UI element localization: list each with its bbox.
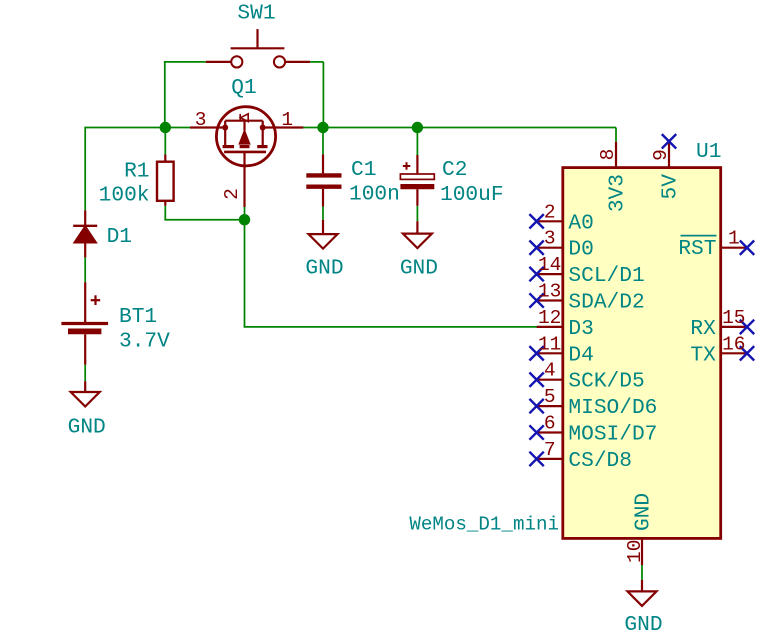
junction: rail / SW1 / R1 node: [160, 122, 171, 133]
svg-text:6: 6: [544, 413, 556, 435]
pin 12 D3 (U1 left): [537, 326, 563, 328]
svg-text:3: 3: [195, 109, 207, 131]
pin 13 SDA/D2 (U1 left): [529, 293, 562, 307]
svg-text:MOSI/D7: MOSI/D7: [568, 423, 657, 447]
svg-text:13: 13: [538, 281, 561, 303]
wire: rail to U1 pin 8 3V3: [615, 128, 617, 142]
svg-text:RX: RX: [690, 317, 716, 341]
ground symbol at BT1: [71, 381, 100, 406]
ground symbol at C2: [403, 221, 432, 248]
wire: R1 bottom down: [164, 206, 166, 220]
wire: D1 anode to BT1 plus: [84, 257, 86, 282]
svg-text:GND: GND: [305, 257, 343, 281]
svg-text:D3: D3: [568, 317, 593, 341]
svg-text:GND: GND: [632, 493, 656, 531]
pin 11 D4 (U1 left): [529, 346, 562, 360]
ground symbol at C1: [309, 220, 338, 249]
svg-text:TX: TX: [690, 344, 716, 368]
wire: riser to SW1 left: [164, 62, 166, 128]
resistor R1: [157, 154, 174, 205]
wire: BT1 minus to ground: [84, 365, 86, 382]
wire: to U1 pin 12 D3: [244, 326, 537, 328]
svg-text:D0: D0: [568, 238, 593, 262]
svg-text:3V3: 3V3: [606, 174, 630, 212]
svg-text:16: 16: [722, 333, 745, 355]
wire: rail to C1 top: [322, 128, 324, 155]
svg-text:10: 10: [624, 540, 646, 563]
svg-text:A0: A0: [568, 211, 593, 235]
svg-text:8: 8: [597, 149, 619, 161]
svg-text:4: 4: [544, 360, 556, 382]
svg-text:D1: D1: [107, 225, 132, 249]
svg-text:2: 2: [544, 201, 556, 223]
pin 6 MOSI/D7 (U1 left): [529, 425, 562, 439]
diode D1: [73, 210, 97, 257]
svg-text:100uF: 100uF: [440, 183, 504, 207]
svg-text:14: 14: [538, 254, 561, 276]
pin 2 A0 (U1 left): [529, 214, 562, 228]
svg-text:11: 11: [538, 333, 561, 355]
svg-text:CS/D8: CS/D8: [568, 449, 632, 473]
pin 9 5V (U1 top): [662, 134, 676, 168]
capacitor C2 polarized: [400, 155, 434, 206]
pin 15 RX (U1 right): [721, 320, 755, 334]
svg-text:C1: C1: [351, 158, 376, 182]
wire: C2 bottom to ground: [416, 206, 418, 221]
pin 8 3V3 (U1 top): [615, 142, 617, 168]
svg-text:RST: RST: [678, 237, 716, 261]
svg-text:MISO/D6: MISO/D6: [568, 396, 657, 420]
wire: C1 bottom to ground: [322, 207, 324, 220]
svg-text:SCK/D5: SCK/D5: [568, 370, 644, 394]
svg-text:D4: D4: [568, 343, 593, 367]
junction: rail / C2 node: [412, 122, 423, 133]
svg-text:Q1: Q1: [231, 76, 256, 100]
svg-text:GND: GND: [68, 416, 106, 440]
pin 16 TX (U1 right): [721, 346, 755, 360]
svg-text:3: 3: [544, 228, 556, 250]
wire: Q1 pin 2 to gate node: [244, 207, 246, 220]
junction: rail / SW1 right / C1 node: [317, 122, 328, 133]
svg-text:5: 5: [544, 386, 556, 408]
svg-text:GND: GND: [400, 257, 438, 281]
battery BT1: [61, 282, 108, 364]
capacitor C1: [306, 154, 341, 206]
svg-text:SDA/D2: SDA/D2: [568, 291, 644, 315]
pin 14 SCL/D1 (U1 left): [529, 267, 562, 281]
wire: to SW1 pin 1: [164, 61, 206, 63]
switch SW1 push button: [206, 29, 310, 67]
svg-text:100k: 100k: [99, 184, 150, 208]
wire: main 3V3 rail: [85, 127, 616, 129]
svg-text:3.7V: 3.7V: [119, 330, 170, 354]
svg-text:C2: C2: [442, 158, 467, 182]
svg-text:12: 12: [538, 307, 561, 329]
op-amp U1 WeMos D1 mini module body: [563, 168, 721, 539]
svg-text:9: 9: [650, 149, 672, 161]
pin 3 D0 (U1 left): [529, 241, 562, 255]
junction: R1 / Q1 gate / D3 node: [239, 214, 250, 225]
wire: SW1 pin 2 out: [310, 61, 323, 63]
ground symbol at U1 pin 10: [628, 580, 657, 606]
wire: rail down to D1 cathode: [84, 127, 86, 211]
pin 5 MISO/D6 (U1 left): [529, 399, 562, 413]
svg-text:100n: 100n: [349, 183, 400, 207]
wire: R1 bottom to Q1 gate node: [164, 219, 244, 221]
svg-text:15: 15: [722, 307, 745, 329]
svg-text:R1: R1: [124, 160, 149, 184]
svg-text:7: 7: [544, 439, 556, 461]
svg-text:SW1: SW1: [237, 2, 275, 26]
svg-text:2: 2: [221, 188, 243, 200]
svg-text:5V: 5V: [659, 174, 683, 200]
svg-text:U1: U1: [696, 140, 721, 164]
pin 4 SCK/D5 (U1 left): [529, 373, 562, 387]
wire: rail to C2 top: [416, 128, 418, 156]
svg-text:GND: GND: [624, 613, 662, 636]
pin 7 CS/D8 (U1 left): [529, 452, 562, 466]
svg-text:1: 1: [728, 228, 740, 250]
svg-text:1: 1: [281, 109, 293, 131]
wire: U1 pin 10 to ground: [641, 565, 643, 580]
wire: gate node down: [244, 220, 246, 327]
svg-text:WeMos_D1_mini: WeMos_D1_mini: [409, 514, 559, 536]
svg-text:BT1: BT1: [119, 305, 157, 329]
svg-text:SCL/D1: SCL/D1: [568, 264, 644, 288]
wire: rail to R1 top: [164, 128, 166, 155]
pin 1 RST (U1 right): [721, 241, 755, 255]
pin 10 GND (U1 bottom): [641, 538, 643, 565]
wire: riser from SW1 right down to rail: [322, 62, 324, 128]
transistor Q1 P-MOSFET: [190, 107, 303, 207]
